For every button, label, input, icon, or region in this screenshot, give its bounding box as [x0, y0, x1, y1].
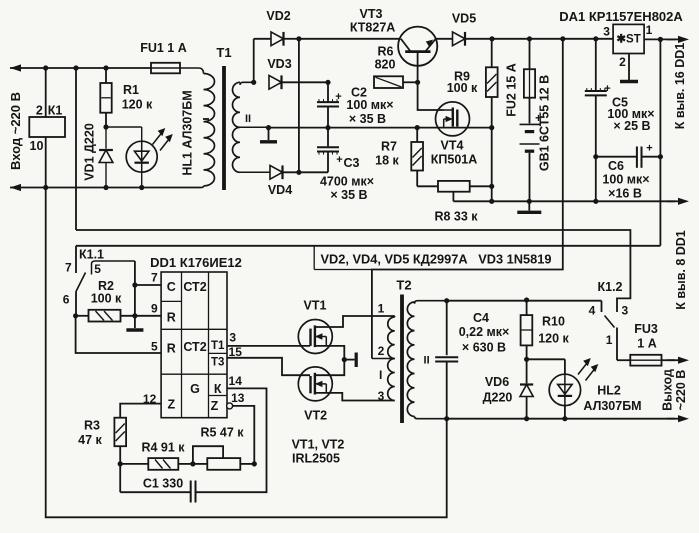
svg-text:4: 4	[589, 304, 596, 318]
fuse FU1	[151, 63, 180, 74]
label C6 100мк 16В	[602, 159, 649, 201]
svg-text:× 35 В: × 35 В	[349, 112, 386, 126]
label VD3	[267, 57, 291, 71]
svg-text:Д220: Д220	[483, 391, 513, 405]
svg-text:II: II	[245, 113, 251, 125]
svg-text:47 к: 47 к	[78, 433, 102, 447]
label R2 100 к	[91, 279, 122, 306]
svg-text:HL2: HL2	[597, 384, 621, 398]
svg-text:С1 330: С1 330	[143, 477, 183, 491]
svg-text:VT1, VT2: VT1, VT2	[292, 438, 345, 452]
capacitor C4	[435, 301, 458, 419]
svg-text:3: 3	[603, 25, 610, 39]
IC DD1 К176ИЕ12 box	[161, 272, 227, 418]
svg-text:Выход: Выход	[661, 369, 675, 411]
wire: output bottom line	[444, 415, 689, 422]
diode VD4	[270, 165, 328, 179]
svg-text:VD2, VD4, VD5 КД2997А VD3 1N: VD2, VD4, VD5 КД2997А VD3 1N5819	[320, 252, 551, 267]
label C2 100мк 35В	[346, 86, 393, 127]
wire: pin 13 to R5	[233, 406, 255, 464]
svg-text:1: 1	[378, 302, 385, 316]
svg-text:R6: R6	[378, 45, 394, 59]
trimmer R5	[193, 446, 257, 470]
capacitor C1	[120, 464, 195, 503]
wire: pin 15 to VT2 gate	[227, 358, 310, 375]
svg-text:820: 820	[375, 58, 396, 72]
svg-text:HL1 АЛ307БМ: HL1 АЛ307БМ	[181, 90, 195, 175]
wire: R9/R8 to ground rail	[489, 128, 494, 204]
transistor VT3	[398, 27, 437, 83]
label VT4 КП501А	[431, 139, 478, 167]
svg-text:C: C	[167, 280, 176, 294]
svg-text:6: 6	[63, 293, 70, 307]
label II (T1 secondary)	[245, 113, 251, 125]
svg-text:СТ2: СТ2	[183, 280, 206, 294]
diode VD5	[453, 32, 493, 46]
svg-text:3: 3	[622, 304, 629, 318]
wire: line B (common to K1.1 contact 7)	[76, 245, 660, 247]
svg-text:Т1: Т1	[216, 45, 231, 60]
diode VD6	[520, 359, 533, 418]
capacitor C3	[317, 128, 343, 173]
svg-text:АЛ307БМ: АЛ307БМ	[583, 399, 641, 413]
svg-text:Т2: Т2	[396, 278, 411, 293]
svg-text:+: +	[335, 91, 341, 103]
label VD6 Д220	[483, 375, 513, 405]
ground rail (to pin 8 DD1)	[453, 198, 689, 205]
resistor R8	[417, 181, 494, 201]
svg-text:100 мк×: 100 мк×	[602, 173, 649, 187]
svg-text:С4: С4	[473, 311, 489, 325]
resistor R6	[374, 76, 420, 88]
label VD4	[268, 183, 292, 197]
svg-text:К: К	[214, 382, 222, 396]
label DD1 К176ИЕ12	[150, 255, 242, 270]
svg-text:VT4: VT4	[441, 139, 464, 153]
fuse FU2	[524, 36, 535, 97]
wire: VT1 source to common	[315, 346, 347, 362]
label R8 33 к	[434, 210, 478, 224]
wire: VT2 drain to common	[315, 360, 344, 376]
svg-text:~220 В: ~220 В	[674, 370, 688, 411]
svg-text:4700 мк×: 4700 мк×	[320, 175, 374, 189]
pin labels 3 1 2	[603, 23, 652, 69]
resistor R10	[521, 300, 533, 362]
svg-text:R1: R1	[123, 83, 139, 97]
capacitor C5	[585, 36, 611, 204]
wire: center-tap common line	[266, 125, 492, 130]
transformer T2 primary winding I	[372, 316, 395, 401]
common source bar	[344, 353, 356, 368]
label R5 47 к	[200, 426, 244, 440]
relay contact K1.2	[602, 301, 618, 361]
label R1 120 к	[122, 83, 153, 112]
wire: line A (mains to K1.2 contact 3)	[76, 230, 630, 312]
LED HL2	[527, 358, 599, 419]
label I (T1 primary)	[203, 118, 209, 120]
wire: VT1 drain to T2 pin1	[315, 316, 395, 327]
svg-text:× 35 В: × 35 В	[330, 188, 367, 202]
transistor VT2	[298, 367, 332, 401]
label VT1, VT2 IRL2505	[292, 438, 345, 466]
svg-text:18 к: 18 к	[375, 154, 399, 168]
relay contact K1.1	[76, 246, 135, 316]
label R4 91 к	[141, 441, 185, 455]
svg-text:СТ2: СТ2	[183, 340, 206, 354]
svg-text:КТ827А: КТ827А	[350, 21, 395, 35]
svg-text:R4 91 к: R4 91 к	[141, 441, 185, 455]
diode VD1	[99, 127, 113, 190]
label Выход ~220 В	[661, 369, 689, 411]
label VT1	[304, 299, 327, 313]
transistor VT4	[436, 102, 470, 136]
svg-text:+: +	[604, 83, 610, 95]
DA1 pin2 to ground	[620, 54, 638, 82]
label VD2, VD4, VD5 КД2997А VD3 1N5819 box	[314, 246, 551, 270]
label К выв. 16 DD1	[673, 43, 687, 130]
wire VD2 branch up	[251, 39, 256, 85]
svg-text:DD1 К176ИЕ12: DD1 К176ИЕ12	[150, 255, 242, 270]
svg-text:G: G	[190, 382, 200, 396]
wire: DA1 output to pin16 DD1	[644, 36, 689, 43]
label 10	[30, 139, 44, 153]
label VT2	[304, 409, 327, 423]
capacitor C2	[317, 80, 342, 130]
svg-text:✱SТ: ✱SТ	[616, 34, 640, 46]
label FU1 1 A	[140, 41, 187, 55]
label C4 0,22мк 630В	[459, 311, 510, 355]
label HL1 АЛ307БМ	[181, 90, 195, 175]
svg-text:VD2: VD2	[266, 9, 290, 23]
label HL2 АЛ307БМ	[583, 384, 641, 414]
svg-text:+: +	[336, 154, 342, 166]
svg-text:5: 5	[94, 262, 101, 276]
svg-text:FU3: FU3	[634, 322, 658, 336]
svg-text:5: 5	[151, 340, 158, 354]
ground symbol below rail	[517, 201, 541, 212]
svg-text:VD1 Д220: VD1 Д220	[83, 123, 97, 181]
svg-text:R10: R10	[542, 315, 565, 329]
capacitor C6	[593, 143, 663, 168]
label DA1 КР1157ЕН802А	[559, 9, 683, 24]
svg-text:0,22 мк×: 0,22 мк×	[459, 325, 510, 339]
pin number labels	[143, 271, 245, 407]
svg-text:R: R	[167, 342, 176, 356]
svg-text:1: 1	[606, 333, 613, 347]
svg-text:13: 13	[231, 391, 245, 405]
wire: pin 14 to C1	[196, 388, 267, 492]
svg-text:R3: R3	[84, 419, 100, 433]
svg-text:R: R	[167, 311, 176, 325]
label К выв. 8 DD1	[674, 230, 688, 310]
wire: contact5 to DD1 pin 7	[132, 261, 161, 328]
DD1 cell labels	[167, 280, 225, 413]
transistor VT1	[298, 320, 332, 354]
resistor R1	[100, 65, 111, 129]
wire: input bottom line 220V	[10, 184, 202, 191]
svg-text:К1: К1	[48, 104, 63, 118]
svg-text:VD3: VD3	[267, 57, 291, 71]
diode VD3	[269, 75, 328, 89]
battery GB1	[520, 98, 543, 204]
svg-text:9: 9	[151, 302, 158, 316]
svg-text:С3: С3	[344, 156, 360, 170]
svg-text:120 к: 120 к	[122, 98, 153, 112]
svg-text:IRL2505: IRL2505	[292, 452, 340, 466]
svg-text:VT3: VT3	[360, 7, 383, 21]
label R6 820	[375, 45, 396, 72]
wire: VT3 base to VT4	[418, 82, 444, 110]
label C1 330	[143, 477, 183, 491]
svg-text:I: I	[379, 368, 382, 382]
label FU2 15 А	[505, 63, 519, 117]
svg-text:К1.2: К1.2	[597, 280, 622, 294]
svg-text:100 мк×: 100 мк×	[346, 98, 393, 112]
svg-text:FU1 1 А: FU1 1 А	[140, 41, 187, 55]
ground (center tap)	[260, 128, 277, 142]
resistor R9	[486, 36, 498, 130]
transformer T2 secondary winding II	[407, 301, 446, 419]
LED HL1	[106, 127, 173, 190]
wire: VT2 source to T2 pin3	[315, 393, 395, 401]
svg-text:С6: С6	[608, 159, 624, 173]
label R9 100 к	[447, 70, 478, 96]
wire: T2 secondary top line	[444, 297, 601, 303]
svg-text:×16 В: ×16 В	[608, 187, 642, 201]
wire: DA1 out / C6 / line B vertical	[659, 39, 661, 245]
svg-text:+: +	[646, 143, 652, 155]
svg-text:× 630 В: × 630 В	[462, 341, 506, 355]
svg-text:VD5: VD5	[452, 12, 476, 26]
svg-text:7: 7	[65, 261, 72, 275]
resistor R2	[73, 310, 161, 322]
svg-text:7: 7	[151, 271, 158, 285]
svg-text:DA1 КР1157ЕН802А: DA1 КР1157ЕН802А	[559, 9, 683, 24]
wire: R2 left to DD1 pin 5	[76, 316, 162, 353]
svg-text:КП501А: КП501А	[431, 153, 478, 167]
svg-text:II: II	[424, 355, 430, 367]
DD1 pin 13 inversion bubble	[227, 403, 233, 409]
svg-text:2: 2	[36, 104, 43, 118]
wire: pin 3 to VT1 gate	[227, 345, 310, 347]
label К1.2 and contacts 4 3 1	[589, 280, 629, 347]
wire: +12 descender to T2 center tap	[372, 36, 566, 358]
svg-text:2: 2	[378, 344, 385, 358]
label C5 100мк 25В	[607, 96, 654, 134]
svg-text:R8 33 к: R8 33 к	[434, 210, 478, 224]
relay coil K1	[29, 65, 65, 190]
label VD1 Д220	[83, 123, 97, 181]
svg-text:10: 10	[30, 139, 44, 153]
svg-text:× 25 В: × 25 В	[613, 119, 650, 133]
svg-text:1 А: 1 А	[637, 337, 656, 351]
svg-text:VD4: VD4	[268, 183, 292, 197]
wire: top +12V rail	[299, 38, 453, 40]
resistor R7	[411, 125, 423, 186]
ground at R2	[126, 328, 143, 331]
svg-text:FU2 15 А: FU2 15 А	[505, 63, 519, 117]
T2 primary terminal labels 1 2 I 3	[378, 302, 385, 404]
label VD2	[266, 9, 290, 23]
svg-text:VD6: VD6	[485, 375, 509, 389]
transformer T1 secondary winding II	[233, 82, 271, 172]
label К1.1 and contacts 7 5 6	[63, 248, 104, 307]
svg-text:Т1: Т1	[211, 340, 225, 352]
svg-text:3: 3	[229, 331, 236, 345]
label T1	[216, 45, 231, 60]
wire: input top line 220V	[10, 64, 151, 71]
svg-text:Т3: Т3	[211, 357, 224, 369]
svg-text:Вход ~220 В: Вход ~220 В	[8, 92, 23, 170]
svg-text:2: 2	[619, 55, 626, 69]
diode VD2	[254, 32, 299, 46]
svg-text:100 к: 100 к	[447, 81, 478, 95]
svg-text:К1.1: К1.1	[79, 248, 104, 262]
label FU3 1 А	[634, 322, 658, 351]
label 2 K1	[36, 104, 63, 118]
regulator DA1	[613, 24, 644, 53]
transformer T1 primary winding I	[180, 68, 215, 188]
svg-text:GB1 6СТ55 12 В: GB1 6СТ55 12 В	[538, 75, 552, 171]
svg-text:Z: Z	[211, 399, 219, 413]
label II (T2 secondary)	[424, 355, 430, 367]
svg-text:100 к: 100 к	[91, 292, 122, 306]
label R7 18 к	[375, 140, 399, 168]
wire: branch to changeover line A	[73, 65, 78, 230]
label R3 47 к	[78, 419, 102, 448]
label VT3 КТ827А	[350, 7, 395, 35]
svg-text:R7: R7	[381, 140, 397, 154]
label GB1 6СТ55 12 В	[538, 75, 552, 171]
label C3 4700мк 35В	[320, 156, 374, 202]
svg-text:14: 14	[229, 374, 243, 388]
svg-text:R5 47 к: R5 47 к	[200, 426, 244, 440]
label Вход ~220 В	[8, 92, 23, 170]
wire: top rail to DA1	[492, 38, 613, 40]
label R10 120 к	[538, 315, 569, 346]
svg-text:VT1: VT1	[304, 299, 327, 313]
T2 core	[400, 295, 404, 424]
svg-text:120 к: 120 к	[538, 332, 569, 346]
wire: bottom rail loop (neutral)	[46, 188, 447, 518]
fuse FU3	[617, 355, 689, 366]
resistor R4	[120, 458, 195, 470]
svg-text:3: 3	[378, 389, 385, 403]
svg-text:К выв. 8 DD1: К выв. 8 DD1	[674, 230, 688, 310]
resistor R3	[114, 404, 161, 467]
svg-text:Z: Z	[167, 398, 175, 412]
svg-text:К выв. 16 DD1: К выв. 16 DD1	[673, 43, 687, 130]
T1 core	[222, 66, 226, 190]
svg-text:1: 1	[646, 23, 653, 37]
label VD5	[452, 12, 476, 26]
wire: rectifier cathode bus	[296, 36, 301, 175]
svg-text:VT2: VT2	[304, 409, 327, 423]
label T2	[396, 278, 411, 293]
